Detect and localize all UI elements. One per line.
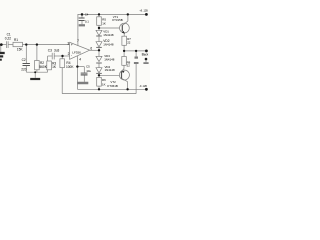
- svg-text:C2: C2: [22, 58, 26, 62]
- svg-text:R1: R1: [14, 38, 18, 42]
- svg-text:7: 7: [77, 39, 79, 43]
- svg-text:1N4148: 1N4148: [104, 57, 115, 61]
- svg-text:560K: 560K: [39, 65, 47, 69]
- svg-text:10u: 10u: [86, 69, 91, 73]
- svg-text:4: 4: [79, 57, 81, 61]
- svg-text:3u3: 3u3: [54, 48, 60, 52]
- svg-text:3: 3: [67, 41, 69, 45]
- svg-text:LF356: LF356: [72, 50, 81, 54]
- svg-text:22: 22: [127, 63, 131, 67]
- svg-text:2: 2: [68, 52, 70, 56]
- svg-text:100K: 100K: [66, 65, 74, 69]
- svg-text:+: +: [71, 43, 73, 47]
- svg-text:1N4148: 1N4148: [105, 68, 116, 72]
- svg-text:Вых: Вых: [142, 52, 149, 56]
- svg-text:+9..12B: +9..12B: [139, 10, 148, 13]
- svg-text:-9..12B: -9..12B: [139, 85, 147, 88]
- svg-text:0,22: 0,22: [5, 36, 11, 40]
- svg-text:6: 6: [90, 47, 92, 51]
- svg-text:1K: 1K: [102, 22, 106, 26]
- svg-text:220: 220: [21, 67, 27, 71]
- svg-text:15K: 15K: [17, 47, 24, 51]
- svg-text:1N4148: 1N4148: [103, 33, 114, 37]
- svg-text:1K: 1K: [102, 82, 106, 86]
- svg-text:1N4148: 1N4148: [103, 43, 114, 47]
- svg-text:C4: C4: [85, 13, 89, 17]
- svg-text:KT315B: KT315B: [112, 18, 123, 22]
- svg-text:0,1: 0,1: [85, 20, 89, 24]
- svg-text:22: 22: [127, 41, 131, 45]
- svg-text:KT361B: KT361B: [107, 84, 118, 88]
- svg-text:C5: C5: [86, 65, 90, 69]
- svg-text:C3: C3: [48, 48, 52, 52]
